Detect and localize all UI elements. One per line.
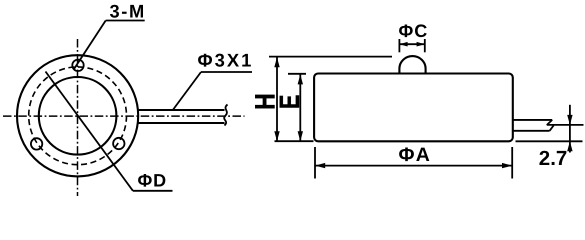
dome on top [399, 56, 425, 73]
2.7 dimension line [569, 105, 571, 153]
cable top line [513, 119, 552, 121]
body rectangle [314, 74, 513, 142]
cable tip diagonal top [547, 120, 552, 125]
vertical centerline [77, 39, 79, 196]
inner circle ΦD [39, 77, 117, 155]
ΦC extension line right [424, 39, 426, 52]
cable tip diagonal bottom [550, 125, 554, 131]
svg-text:ΦD: ΦD [138, 170, 167, 190]
ΦA arrow right [502, 163, 512, 168]
bolt circle (dashed) [29, 67, 127, 165]
label ΦD shelf [133, 190, 173, 192]
leader 3-M [74, 21, 106, 70]
bolt hole top [72, 60, 83, 71]
cable bottom line [513, 130, 550, 132]
diameter line for ΦD [46, 72, 133, 191]
2.7 arrow top (pointing down) [567, 115, 572, 125]
svg-text:3-M: 3-M [110, 1, 146, 22]
cable tube bottom line [138, 122, 225, 124]
cable tube top line [138, 109, 225, 111]
bottom extension line (H/E) [275, 140, 314, 142]
leader Φ3×1 [173, 72, 201, 110]
horizontal centerline [3, 115, 245, 117]
H arrow top [274, 57, 279, 67]
E arrow bottom [298, 131, 303, 141]
bottom extension line to 2.7 dim [516, 140, 583, 142]
ΦC extension line left [398, 39, 400, 52]
2.7 arrow bottom (pointing up) [567, 141, 572, 151]
outer circle [17, 55, 138, 176]
svg-text:ΦC: ΦC [399, 21, 429, 41]
label Φ3×1 shelf [201, 71, 252, 73]
ΦA extension line right [511, 147, 513, 179]
bolt hole lower-left [31, 138, 42, 149]
label 3-M shelf [106, 20, 145, 22]
tube break squiggle [224, 105, 227, 126]
ΦA dimension line [315, 165, 512, 167]
bolt hole lower-right [113, 138, 124, 149]
svg-text:Φ3X1: Φ3X1 [198, 49, 254, 70]
cable centre extension line to 2.7 dim [547, 124, 584, 126]
ΦC arrow right [417, 42, 425, 47]
ΦA arrow left [315, 163, 325, 168]
ΦC dimension line [399, 43, 424, 45]
svg-text:2.7: 2.7 [539, 147, 568, 170]
E dimension line [299, 74, 301, 141]
svg-text:ΦA: ΦA [399, 144, 432, 166]
H arrow bottom [274, 131, 279, 141]
ΦA extension line left [314, 147, 316, 179]
H top extension line [269, 56, 392, 58]
E arrow top [298, 74, 303, 84]
svg-text:E: E [274, 95, 305, 109]
H dimension line [276, 57, 278, 141]
ΦC arrow left [399, 42, 407, 47]
E top extension line [288, 73, 306, 75]
